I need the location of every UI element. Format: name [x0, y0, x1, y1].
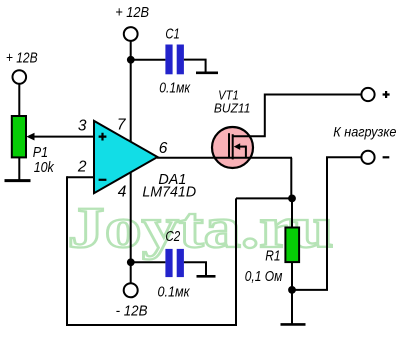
- wire source down to R1 node: [290, 158, 292, 199]
- capacitor C1: [165, 45, 172, 75]
- node V+ junction: [127, 56, 135, 64]
- minus mark output: [383, 156, 390, 158]
- wire R1 top: [291, 198, 293, 227]
- svg-text:- 12В: - 12В: [116, 304, 148, 320]
- resistor R1: [285, 228, 299, 263]
- node R1 top: [288, 195, 296, 203]
- wire pin2: [67, 176, 94, 178]
- wire pin3 wiper arrow: [33, 136, 94, 138]
- wire C1 left: [131, 59, 166, 61]
- transistor VT1 body: [212, 127, 253, 168]
- plus mark output: [383, 91, 390, 98]
- terminal -12V: [124, 283, 138, 297]
- svg-text:BUZ11: BUZ11: [214, 102, 251, 116]
- wire P1 to ground: [18, 157, 20, 180]
- svg-text:C2: C2: [165, 229, 180, 245]
- ground R1: [281, 323, 306, 326]
- terminal plus output: [361, 88, 374, 101]
- svg-text:+ 12В: + 12В: [115, 5, 149, 21]
- svg-text:C1: C1: [165, 26, 179, 42]
- transistor gate bar: [228, 133, 230, 158]
- wire drain: [233, 95, 362, 137]
- op-amp DA1: [94, 121, 158, 193]
- wire feedback to R1 top node: [236, 197, 292, 199]
- svg-text:LM741D: LM741D: [142, 185, 196, 201]
- ground P1: [5, 179, 31, 182]
- svg-text:VT1: VT1: [218, 89, 239, 103]
- ground C2: [197, 275, 216, 278]
- wire C2 right: [184, 262, 206, 275]
- svg-text:+ 12В: + 12В: [6, 50, 38, 66]
- svg-text:6: 6: [159, 140, 168, 157]
- transistor substrate arrow: [236, 146, 246, 148]
- node R1 bottom: [288, 286, 296, 294]
- svg-text:2: 2: [77, 158, 87, 175]
- terminal +12V left: [12, 70, 26, 84]
- svg-text:10k: 10k: [34, 160, 55, 176]
- svg-text:К нагрузке: К нагрузке: [333, 125, 397, 140]
- svg-text:R1: R1: [265, 249, 280, 265]
- svg-text:4: 4: [118, 184, 127, 201]
- terminal minus output: [361, 151, 374, 164]
- svg-text:7: 7: [117, 117, 127, 134]
- svg-text:3: 3: [78, 117, 87, 134]
- ground C1: [196, 72, 218, 75]
- transistor channel bar: [232, 134, 234, 159]
- wire C2 left: [131, 261, 166, 263]
- svg-text:P1: P1: [33, 145, 48, 161]
- node V- junction: [127, 258, 135, 266]
- svg-text:0.1мк: 0.1мк: [159, 81, 191, 97]
- wire feedback right vertical: [235, 198, 237, 326]
- wire feedback left vertical: [66, 176, 68, 326]
- wire minus terminal to R1 bottom: [292, 157, 361, 290]
- wire R1 bottom: [291, 262, 293, 323]
- wire V+ rail vertical: [130, 41, 132, 283]
- opamp plus input mark: [99, 133, 107, 141]
- wire terminal-left to P1: [18, 84, 20, 116]
- svg-text:0.1мк: 0.1мк: [158, 284, 191, 300]
- wire opamp output to source node: [157, 157, 292, 159]
- potentiometer P1: [12, 116, 26, 157]
- wire C1 right: [184, 60, 206, 73]
- capacitor C2: [165, 249, 172, 277]
- svg-text:0,1 Ом: 0,1 Ом: [245, 269, 283, 285]
- terminal +12V top: [124, 27, 138, 41]
- wire feedback bottom: [66, 324, 237, 326]
- opamp minus input mark: [99, 179, 107, 181]
